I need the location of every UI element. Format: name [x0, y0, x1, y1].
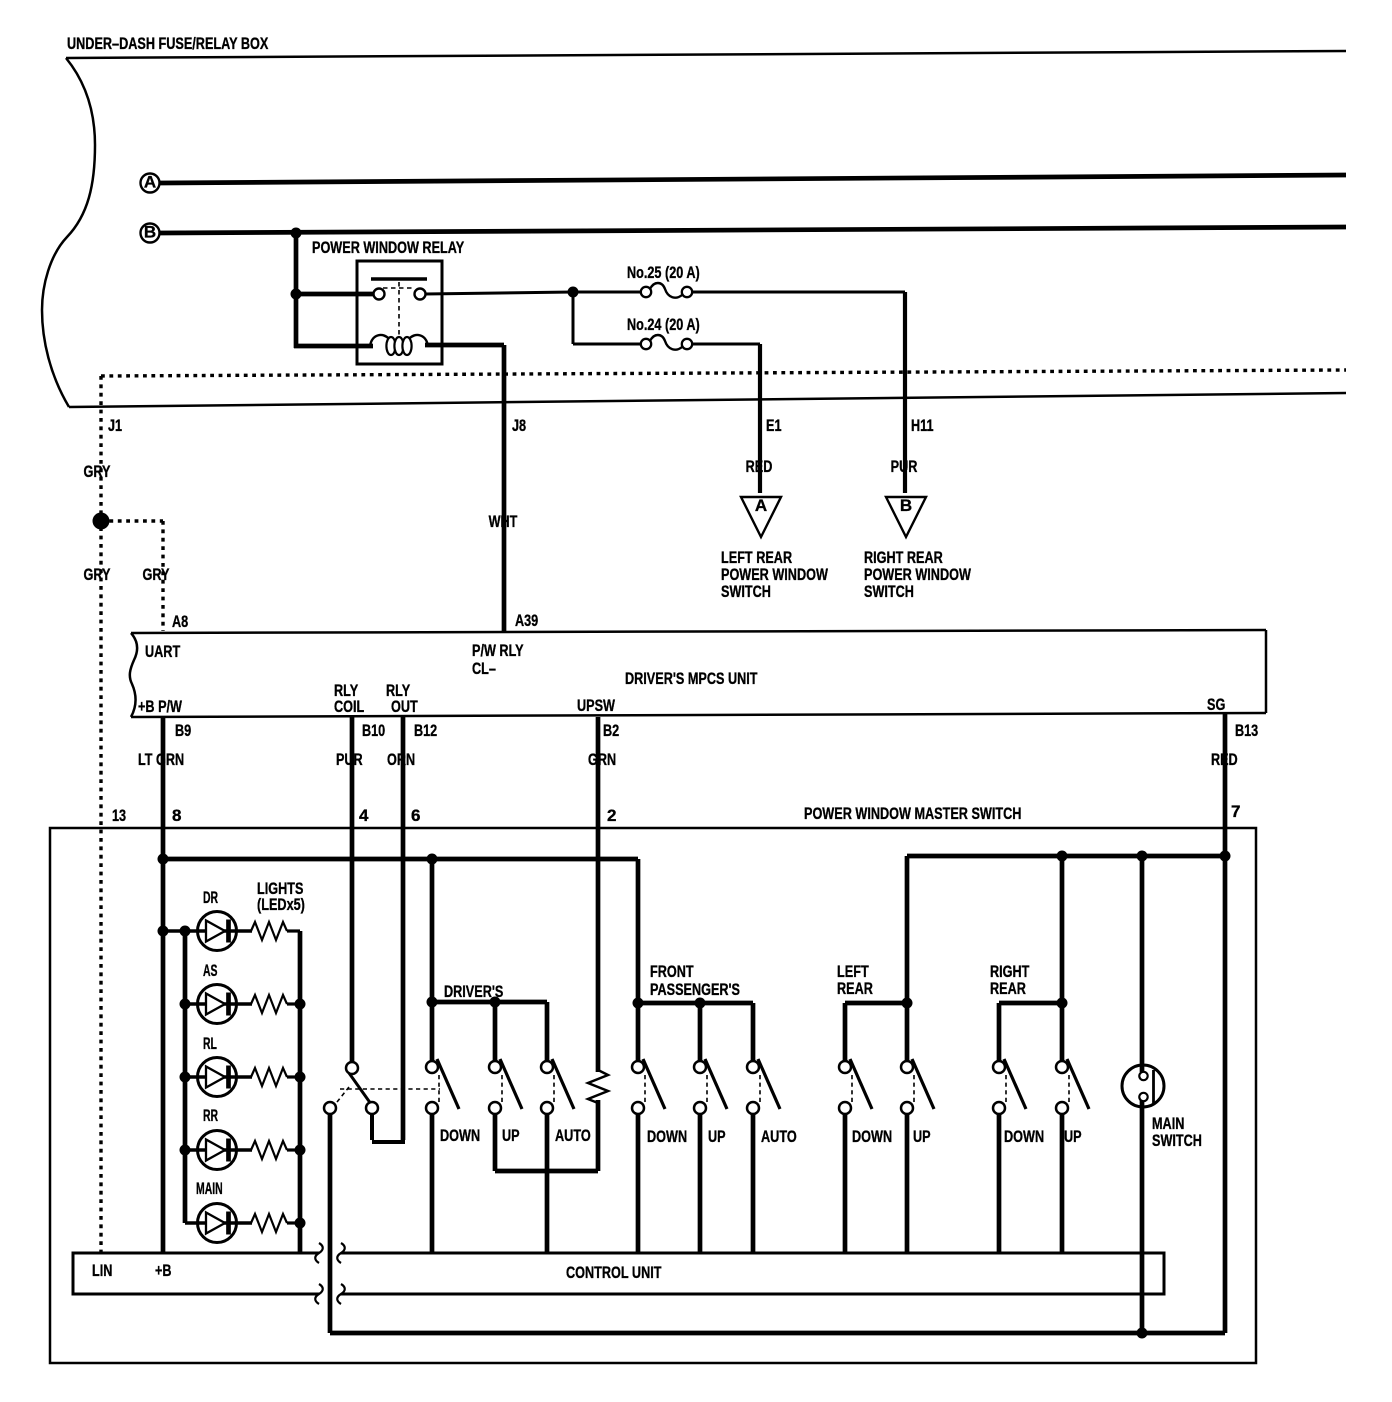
svg-text:CONTROL UNIT: CONTROL UNIT: [566, 1263, 662, 1282]
svg-text:REAR: REAR: [990, 979, 1026, 998]
wire LED anode bus: [183, 931, 188, 1223]
wire RED pin B13 SG: [1211, 713, 1258, 1333]
LED RR: [185, 1106, 252, 1170]
break mark: [337, 1243, 345, 1263]
svg-text:PASSENGER'S: PASSENGER'S: [650, 980, 740, 999]
svg-text:SWITCH: SWITCH: [864, 582, 914, 601]
svg-text:E1: E1: [766, 416, 782, 435]
svg-text:ORN: ORN: [387, 750, 415, 769]
wire: [287, 1002, 300, 1005]
svg-text:UP: UP: [502, 1126, 520, 1145]
resistor LED DR: [251, 922, 287, 940]
wire to fuse No.25: [573, 291, 641, 294]
junction: [180, 999, 191, 1010]
svg-text:No.24 (20 A): No.24 (20 A): [627, 315, 700, 334]
svg-text:UPSW: UPSW: [577, 696, 616, 715]
svg-text:6: 6: [411, 806, 420, 825]
wire: [545, 1002, 550, 1061]
wire main switch to SG: [1140, 1100, 1145, 1333]
resistor LED RL: [251, 1068, 287, 1086]
junction relay contact feed: [291, 289, 302, 300]
svg-text:WHT: WHT: [489, 512, 518, 531]
svg-text:GRY: GRY: [143, 565, 170, 584]
svg-text:DOWN: DOWN: [647, 1127, 687, 1146]
switch contact right rear UP: [1056, 1059, 1089, 1114]
junction: [1137, 1328, 1148, 1339]
svg-text:COIL: COIL: [334, 697, 364, 716]
switch contact driver's AUTO: [541, 1059, 574, 1114]
wire main switch supply: [1140, 856, 1145, 1072]
wire GRY branch to A8 dotted: [101, 521, 170, 631]
connector A left rear: [721, 496, 829, 601]
wire: [287, 1221, 300, 1224]
junction on bus B: [291, 228, 302, 239]
junction: [1057, 998, 1068, 1009]
control unit: [73, 1253, 1164, 1294]
wire left rear bus: [845, 1001, 907, 1006]
switch contact driver's DOWN: [426, 1059, 459, 1114]
switch contact front passenger UP: [694, 1059, 727, 1114]
wire: [493, 1002, 498, 1061]
svg-text:RL: RL: [203, 1034, 217, 1053]
under-dash fuse/relay box: [42, 34, 1346, 407]
wire to relay coil: [294, 344, 373, 349]
svg-text:B13: B13: [1235, 721, 1258, 740]
wire front passenger's bus: [638, 1001, 753, 1006]
wire PUR pin H11: [891, 292, 934, 493]
junction: [427, 997, 438, 1008]
svg-text:PUR: PUR: [891, 457, 918, 476]
svg-text:UP: UP: [1064, 1127, 1082, 1146]
wire front passenger's supply: [636, 859, 641, 1061]
label lights: [257, 879, 305, 914]
junction: [1137, 851, 1148, 862]
svg-text:A: A: [755, 496, 767, 515]
svg-text:FRONT: FRONT: [650, 962, 694, 981]
wire fuse No.25 to H11: [692, 291, 905, 294]
svg-text:OUT: OUT: [391, 697, 418, 716]
wire PUR pin B10: [336, 717, 385, 1062]
wire driver's bus: [432, 1000, 547, 1005]
resistor UPSW: [588, 1070, 608, 1103]
wire: [698, 1003, 703, 1061]
svg-text:SWITCH: SWITCH: [1152, 1131, 1202, 1150]
wire GRY pin J1 dotted: [84, 376, 123, 1253]
svg-text:DOWN: DOWN: [1004, 1127, 1044, 1146]
labels: [852, 1127, 931, 1146]
label left rear: [837, 962, 873, 998]
svg-text:AS: AS: [203, 961, 218, 980]
svg-text:13: 13: [112, 806, 126, 825]
switch contact left rear DOWN: [839, 1059, 872, 1114]
wire: [751, 1003, 756, 1061]
svg-text:(LEDx5): (LEDx5): [257, 895, 305, 914]
wire driver's UP to resistor: [493, 1114, 498, 1171]
junction: [180, 926, 191, 937]
driver's MPCS unit: [130, 611, 1266, 717]
svg-text:RED: RED: [1211, 750, 1238, 769]
junction: [295, 1145, 306, 1156]
wire ORN pin B12: [387, 717, 437, 1140]
wire RR DOWN to control unit: [997, 1114, 1002, 1253]
wire RED pin E1: [746, 344, 782, 493]
resistor LED RR: [251, 1141, 287, 1159]
resistor LED AS: [251, 995, 287, 1013]
resistor LED MAIN: [251, 1214, 287, 1232]
connector B right rear: [864, 496, 972, 601]
wire relay coil switch common to SG: [328, 1114, 333, 1333]
junction: [427, 854, 438, 865]
switch contact front passenger AUTO: [747, 1059, 780, 1114]
svg-text:H11: H11: [911, 416, 934, 435]
svg-text:+B: +B: [155, 1261, 172, 1280]
svg-text:4: 4: [359, 806, 369, 825]
wire relay contact output: [425, 292, 573, 294]
junction: [490, 997, 501, 1008]
svg-text:DR: DR: [203, 888, 218, 907]
junction: [295, 999, 306, 1010]
svg-text:POWER WINDOW MASTER SWITCH: POWER WINDOW MASTER SWITCH: [804, 804, 1021, 823]
wire +B bus left: [163, 857, 638, 862]
wire FP UP to control unit: [698, 1114, 703, 1253]
label right rear: [990, 962, 1030, 998]
svg-text:B2: B2: [603, 721, 619, 740]
svg-text:LT GRN: LT GRN: [138, 750, 184, 769]
junction fuse branch: [568, 287, 579, 298]
svg-text:J1: J1: [108, 416, 122, 435]
node B: [141, 223, 160, 243]
switch contact front passenger DOWN: [632, 1059, 665, 1114]
junction: [633, 998, 644, 1009]
wire branch to fuse No.24: [572, 292, 575, 344]
wire: [287, 1075, 300, 1078]
svg-text:SG: SG: [1207, 695, 1225, 714]
wire LT GRN pin B9: [138, 717, 191, 1253]
junction: [1057, 851, 1068, 862]
svg-text:DRIVER'S MPCS UNIT: DRIVER'S MPCS UNIT: [625, 669, 758, 688]
wire to relay contact: [296, 292, 376, 297]
LED MAIN: [185, 1179, 252, 1243]
wire right rear supply: [1060, 856, 1065, 1061]
wire: [287, 1148, 300, 1151]
svg-text:RED: RED: [746, 457, 773, 476]
svg-text:PUR: PUR: [336, 750, 363, 769]
fuse No.24 (20 A): [627, 315, 700, 350]
labels: [647, 1127, 797, 1146]
svg-text:AUTO: AUTO: [761, 1127, 797, 1146]
wire GRN pin B2: [588, 717, 619, 1072]
fuse No.25 (20 A): [627, 263, 700, 298]
junction: [295, 1072, 306, 1083]
wire: [287, 929, 300, 932]
svg-text:SWITCH: SWITCH: [721, 582, 771, 601]
svg-text:B9: B9: [175, 721, 191, 740]
svg-text:AUTO: AUTO: [555, 1126, 591, 1145]
switch contact left rear UP: [901, 1059, 934, 1114]
junction GRY splice: [93, 513, 110, 530]
switch contact driver's UP: [489, 1059, 522, 1114]
svg-text:A8: A8: [172, 612, 188, 631]
wire FP DOWN to control unit: [636, 1114, 641, 1253]
junction: [695, 998, 706, 1009]
break mark: [315, 1284, 323, 1304]
svg-text:P/W RLY: P/W RLY: [472, 641, 524, 660]
junction: [180, 1145, 191, 1156]
wire: [843, 1003, 848, 1061]
wire WHT pin J8: [425, 345, 526, 633]
svg-text:UP: UP: [708, 1127, 726, 1146]
svg-text:7: 7: [1231, 802, 1240, 821]
svg-text:2: 2: [607, 806, 616, 825]
switch relay coil: [324, 1062, 440, 1114]
wire driver's AUTO to control unit: [545, 1114, 550, 1253]
wire LR DOWN to control unit: [843, 1114, 848, 1253]
svg-text:UP: UP: [913, 1127, 931, 1146]
wire bus B: [159, 227, 1346, 233]
svg-text:A39: A39: [515, 611, 538, 630]
svg-text:DRIVER'S: DRIVER'S: [444, 982, 503, 1001]
svg-text:GRY: GRY: [84, 462, 111, 481]
power window master switch box: [50, 802, 1256, 1363]
labels: [1004, 1127, 1082, 1146]
wire B to relay: [294, 233, 299, 348]
labels: [440, 1126, 591, 1145]
LED RL: [185, 1034, 252, 1097]
svg-text:MAIN: MAIN: [196, 1179, 223, 1198]
wire SG return bottom: [330, 1331, 1225, 1336]
svg-text:J8: J8: [512, 416, 526, 435]
label front passenger's: [650, 962, 740, 999]
junction: [1220, 851, 1231, 862]
svg-text:+B P/W: +B P/W: [138, 697, 183, 716]
wire fuse No.24 to E1: [692, 343, 760, 346]
junction: [295, 1218, 306, 1229]
svg-text:DOWN: DOWN: [852, 1127, 892, 1146]
svg-text:GRN: GRN: [588, 750, 616, 769]
svg-text:8: 8: [172, 806, 181, 825]
svg-text:RR: RR: [203, 1106, 218, 1125]
wire FP AUTO to control unit: [751, 1114, 756, 1253]
wire LED cathode bus: [298, 931, 303, 1253]
break mark: [315, 1243, 323, 1263]
wire driver's DOWN to control unit: [430, 1114, 435, 1253]
svg-text:LIN: LIN: [92, 1261, 112, 1280]
main switch: [1122, 1065, 1202, 1150]
wire driver's supply: [430, 859, 435, 1061]
svg-text:No.25 (20 A): No.25 (20 A): [627, 263, 700, 282]
svg-text:B: B: [144, 223, 156, 242]
wire LR UP to control unit: [905, 1114, 910, 1253]
svg-text:A: A: [144, 173, 156, 192]
svg-text:REAR: REAR: [837, 979, 873, 998]
LED DR: [163, 888, 252, 951]
svg-text:UNDER–DASH FUSE/RELAY BOX: UNDER–DASH FUSE/RELAY BOX: [67, 34, 269, 53]
junction: [158, 854, 169, 865]
wire left rear supply: [905, 856, 910, 1061]
break mark: [337, 1284, 345, 1304]
svg-text:B: B: [900, 496, 912, 515]
junction: [902, 998, 913, 1009]
node A: [141, 173, 160, 193]
junction: [180, 1072, 191, 1083]
svg-text:B12: B12: [414, 721, 437, 740]
relay power window relay: [312, 238, 465, 364]
svg-text:B10: B10: [362, 721, 385, 740]
wire RR UP to control unit: [1060, 1114, 1065, 1253]
wire relay coil switch NO to RLY OUT: [370, 1114, 374, 1140]
junction: [158, 926, 169, 937]
svg-text:DOWN: DOWN: [440, 1126, 480, 1145]
wire right rear bus: [999, 1001, 1062, 1006]
wire: [997, 1003, 1002, 1061]
wire bus A: [160, 175, 1346, 183]
svg-text:CL–: CL–: [472, 659, 496, 678]
wire SG bus right: [907, 854, 1225, 859]
svg-text:GRY: GRY: [84, 565, 111, 584]
switch contact right rear DOWN: [993, 1059, 1026, 1114]
svg-text:UART: UART: [145, 642, 181, 661]
LED AS: [185, 961, 252, 1024]
svg-text:POWER WINDOW RELAY: POWER WINDOW RELAY: [312, 238, 465, 257]
dotted harness boundary: [101, 370, 1346, 376]
